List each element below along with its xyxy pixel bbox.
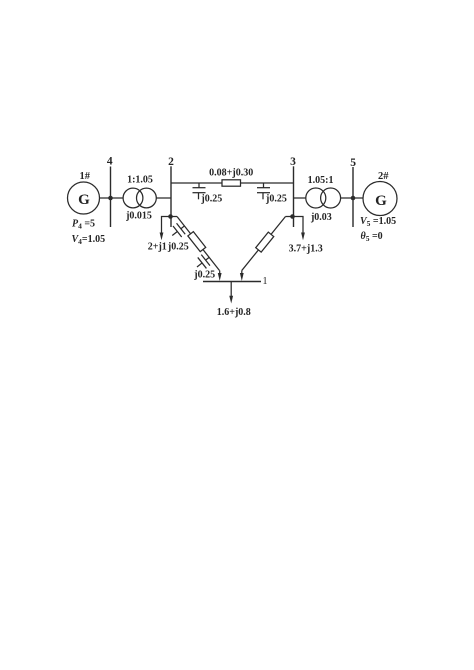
bus 4	[110, 167, 112, 228]
transformer T1 circles	[123, 188, 143, 208]
load arrow at bus1	[230, 282, 232, 297]
svg-text:j0.015: j0.015	[125, 211, 152, 222]
junction dot bus2 bottom	[168, 214, 173, 219]
arrowhead load bus2	[160, 233, 164, 241]
svg-text:j0.25: j0.25	[200, 194, 222, 205]
arrow stub line2-1 into bus1	[219, 271, 221, 275]
arrowhead line2-1 at bus1	[218, 273, 222, 281]
series impedance box line 3-1	[256, 232, 274, 252]
arrowhead load bus1	[229, 296, 233, 304]
svg-text:1.05:1: 1.05:1	[308, 175, 334, 186]
junction dot bus3 bottom	[290, 214, 295, 219]
generator G1 circle	[68, 182, 100, 214]
transformer T2 circles	[306, 188, 326, 208]
shunt capacitor at bus3 side	[257, 183, 270, 199]
wire T1 to bus 2	[156, 197, 171, 199]
svg-text:G: G	[375, 193, 387, 209]
wire bus3 to transformer T2	[294, 197, 306, 199]
svg-text:2#: 2#	[378, 171, 389, 182]
svg-text:3: 3	[290, 156, 296, 168]
bus 2	[170, 166, 172, 227]
svg-text:P4 =5: P4 =5	[72, 219, 95, 231]
svg-text:1: 1	[263, 276, 268, 287]
svg-text:1.6+j0.8: 1.6+j0.8	[217, 307, 251, 318]
svg-text:θ5 =0: θ5 =0	[361, 231, 383, 243]
wire jog to line 2-1	[170, 216, 177, 218]
svg-text:j0.03: j0.03	[310, 212, 332, 223]
svg-text:V5 =1.05: V5 =1.05	[360, 216, 396, 228]
svg-text:j0.25: j0.25	[167, 242, 189, 253]
wire jog to line 3-1	[286, 216, 293, 218]
svg-text:1:1.05: 1:1.05	[127, 175, 153, 186]
arrowhead load bus3	[301, 233, 305, 241]
bus 1	[203, 281, 261, 283]
series impedance box line 2-1	[188, 232, 206, 252]
svg-text:5: 5	[350, 157, 356, 169]
bus 5	[352, 167, 354, 227]
junction dot bus5	[351, 196, 356, 201]
svg-text:G: G	[78, 192, 90, 208]
wire G1 to transformer T1	[100, 197, 124, 199]
shunt capacitor at bus2 side	[193, 183, 206, 199]
line 2-1 diagonal	[165, 214, 222, 280]
svg-text:V4=1.05: V4=1.05	[72, 234, 106, 246]
svg-text:j0.25: j0.25	[193, 269, 215, 280]
load arrow at bus3	[293, 217, 304, 234]
shunt capacitor lower on line 2-1	[206, 257, 210, 260]
svg-text:3.7+j1.3: 3.7+j1.3	[289, 244, 323, 255]
line 3-1 diagonal	[239, 214, 288, 272]
svg-text:2: 2	[168, 156, 174, 168]
load arrow at bus2	[162, 217, 171, 234]
arrowhead line3-1 at bus1	[240, 273, 244, 281]
arrow stub line3-1 into bus1	[241, 270, 243, 274]
svg-text:2+j1: 2+j1	[148, 242, 167, 253]
series impedance box line 2-3	[222, 180, 241, 186]
shunt capacitor upper on line 2-1	[181, 226, 185, 229]
line 2-3 wire	[171, 182, 294, 184]
svg-text:4: 4	[107, 156, 113, 168]
wire T2 to bus5 to G2	[341, 197, 364, 199]
svg-text:0.08+j0.30: 0.08+j0.30	[209, 168, 253, 179]
svg-text:1#: 1#	[79, 171, 90, 182]
svg-text:j0.25: j0.25	[265, 194, 287, 205]
generator G2 circle	[363, 182, 397, 216]
bus 3	[293, 166, 295, 227]
junction dot bus4	[108, 196, 113, 201]
